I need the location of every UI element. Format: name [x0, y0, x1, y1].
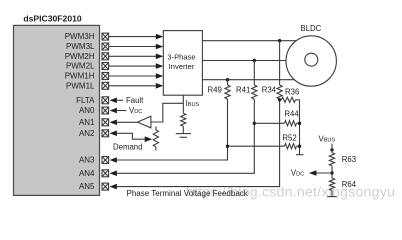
svg-text:Phase Terminal Voltage Feedbac: Phase Terminal Voltage Feedback: [127, 189, 249, 198]
svg-text:AN2: AN2: [79, 129, 95, 138]
node R44/rail: [298, 122, 301, 125]
wire VDC tap arrow: [309, 170, 332, 176]
pin AN2: [79, 129, 109, 138]
wire PWM1H to inverter: [109, 73, 164, 79]
wire VBUS lead: [331, 144, 333, 153]
svg-text:VBUS: VBUS: [319, 134, 336, 143]
wire VDC to AN0: [110, 108, 126, 114]
node R41/R44: [253, 122, 256, 125]
wire phase C: [202, 79, 296, 81]
svg-text:R49: R49: [208, 86, 222, 95]
resistor R64: [329, 178, 334, 197]
svg-text:R63: R63: [342, 155, 356, 164]
resistor R49: [225, 80, 230, 147]
inverter U2 box: [163, 31, 202, 96]
svg-text:PWM3H: PWM3H: [65, 32, 95, 41]
ground (shunt): [176, 134, 191, 138]
svg-text:R52: R52: [282, 133, 296, 142]
wire buffer output to AN1: [110, 120, 138, 126]
resistor shunt: [181, 113, 186, 126]
node VBUS terminal: [330, 148, 333, 151]
svg-text:3-Phase: 3-Phase: [167, 52, 195, 61]
motor BLDC: [286, 36, 336, 86]
svg-text:PWM1L: PWM1L: [66, 81, 95, 90]
svg-text:PWM2L: PWM2L: [66, 62, 95, 71]
svg-text:PWM2H: PWM2H: [65, 52, 95, 61]
svg-text:BLDC: BLDC: [301, 24, 322, 33]
wire phase B: [202, 60, 288, 62]
svg-text:R44: R44: [284, 110, 299, 119]
resistor R63: [329, 153, 334, 178]
pin AN3: [79, 156, 109, 165]
wire inverter bottom to shunt: [182, 95, 184, 113]
pin PWM1H: [65, 72, 109, 81]
svg-text:PWM1H: PWM1H: [65, 72, 95, 81]
node VDC tap: [330, 171, 333, 174]
pin AN4: [79, 169, 109, 178]
wire AN4 line: [110, 123, 255, 176]
wire PWM3H to inverter: [109, 34, 164, 40]
svg-text:Fault: Fault: [126, 96, 144, 105]
svg-text:VDC: VDC: [129, 106, 142, 115]
wire ground rail: [299, 100, 301, 155]
pin PWM2H: [65, 52, 109, 61]
potentiometer demand pot: [153, 127, 158, 151]
wire IBUS tap: [151, 103, 183, 122]
svg-text:IBUS: IBUS: [186, 99, 200, 108]
svg-text:PWM3L: PWM3L: [66, 42, 95, 51]
svg-text:VDC: VDC: [291, 169, 304, 178]
pin FLTA: [76, 96, 108, 105]
wire shunt to ground: [182, 126, 184, 133]
resistor R44: [254, 121, 299, 126]
node phase A tap: [278, 39, 281, 42]
svg-text:AN0: AN0: [79, 106, 95, 115]
wire PWM2H to inverter: [109, 54, 164, 60]
pin PWM3H: [65, 32, 109, 41]
svg-text:Inverter: Inverter: [169, 62, 195, 71]
wire Fault to FLTA: [110, 98, 123, 104]
svg-text:AN5: AN5: [79, 182, 95, 191]
wire AN5 line: [110, 100, 280, 190]
ground (rail): [296, 154, 303, 156]
svg-text:Demand: Demand: [113, 142, 142, 151]
wire AN3 line: [110, 146, 228, 163]
pin PWM3L: [66, 42, 109, 51]
resistor R36: [280, 97, 300, 102]
svg-text:R64: R64: [342, 180, 357, 189]
node R49/R52: [226, 145, 229, 148]
op-amp buffer U3: [138, 116, 151, 128]
node phase B tap: [253, 59, 256, 62]
svg-text:R36: R36: [285, 88, 299, 97]
wire AN2 to demand wiper: [110, 131, 153, 143]
wire PWM3L to inverter: [109, 44, 164, 50]
svg-text:R34: R34: [262, 86, 277, 95]
resistor R34: [277, 41, 282, 99]
svg-text:FLTA: FLTA: [76, 96, 95, 105]
resistor R52: [228, 144, 300, 149]
pin AN0: [79, 106, 109, 115]
node R34/R36: [278, 98, 281, 101]
svg-text:AN3: AN3: [79, 156, 95, 165]
node phase C tap: [226, 78, 229, 81]
svg-text:R41: R41: [236, 86, 250, 95]
pin AN5: [79, 182, 109, 191]
pin AN1: [79, 118, 109, 127]
wire PWM2L to inverter: [109, 63, 164, 69]
ground (R64): [327, 196, 337, 198]
svg-text:AN4: AN4: [79, 169, 95, 178]
wire phase A: [202, 40, 298, 42]
pin PWM2L: [66, 62, 109, 71]
node R52/rail: [298, 145, 301, 148]
pin PWM1L: [66, 81, 109, 90]
wire PWM1L to inverter: [109, 83, 164, 89]
IC U1 dsPIC30F2010 body: [14, 25, 100, 195]
svg-text:dsPIC30F2010: dsPIC30F2010: [23, 14, 82, 24]
resistor R41: [252, 61, 257, 124]
svg-text:AN1: AN1: [79, 118, 95, 127]
